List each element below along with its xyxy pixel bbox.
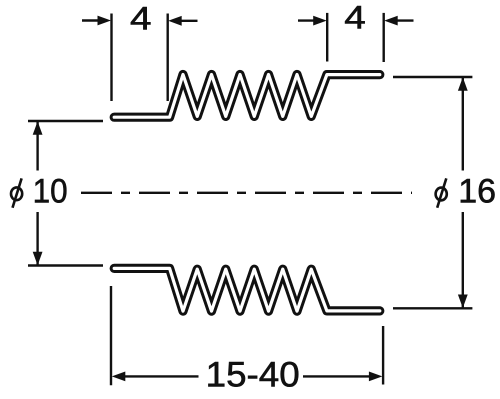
- dim 4 right: extension lines: [326, 13, 328, 62]
- dim phi16: extension lines: [393, 76, 472, 78]
- dim 4 right: right arrow: [384, 16, 398, 26]
- svg-text:4: 4: [344, 0, 366, 36]
- dim phi10: up arrow: [33, 121, 43, 135]
- dim phi10: phi symbol: [11, 178, 22, 207]
- dim phi16: down arrow: [458, 295, 468, 309]
- dim phi16: dimension line: [462, 78, 464, 171]
- dim phi16: up arrow: [458, 77, 468, 91]
- dim 4 right: left arrow: [298, 19, 315, 21]
- spring top half outline: [114, 75, 380, 118]
- dim 4 left: right arrow: [168, 16, 182, 26]
- dim 4 left: left arrow: [82, 19, 99, 21]
- spring bottom half core: [114, 268, 380, 311]
- dim 15-40: extension lines: [110, 286, 112, 385]
- dim phi16: phi symbol: [436, 178, 447, 207]
- dim 4 left: extension lines: [110, 14, 112, 102]
- spring top half core: [114, 75, 380, 118]
- centerline axis: [81, 192, 412, 194]
- dim phi10: dimension line: [36, 122, 38, 171]
- svg-text:16: 16: [458, 172, 496, 210]
- spring bottom half outline: [114, 268, 380, 311]
- svg-text:15-40: 15-40: [206, 356, 300, 395]
- dim phi10: down arrow: [33, 252, 43, 265]
- dim 15-40: left arrow: [112, 372, 126, 382]
- svg-text:4: 4: [130, 1, 152, 37]
- dim phi10: extension lines: [28, 120, 103, 122]
- svg-text:10: 10: [33, 173, 68, 211]
- dim 15-40: right arrow: [303, 375, 370, 377]
